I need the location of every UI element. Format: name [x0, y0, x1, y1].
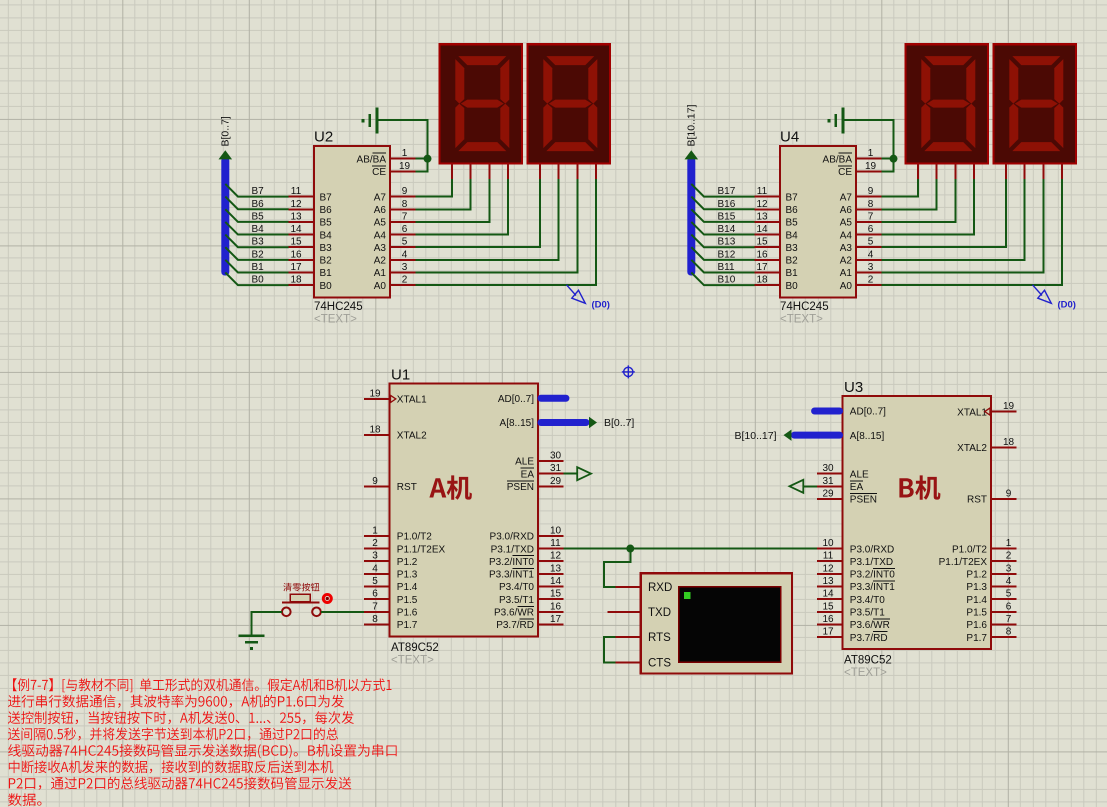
terminal pin RTS: [616, 632, 672, 644]
wire U4 A0 to display pin: [881, 179, 1062, 285]
pin 8 P1.7 of U1: [364, 614, 418, 631]
svg-text:14: 14: [290, 224, 302, 235]
svg-text:7: 7: [868, 211, 874, 222]
wire U2 A6 to display pin: [415, 179, 470, 209]
svg-text:6: 6: [402, 224, 408, 235]
svg-text:B15: B15: [718, 211, 736, 222]
svg-text:B12: B12: [718, 249, 736, 260]
svg-text:4: 4: [868, 249, 874, 260]
pin 13 P3.3/INT1 of U3: [817, 576, 895, 593]
pin 16 P3.6/WR of U3: [817, 614, 890, 631]
wire bus tap B5: [225, 209, 288, 222]
svg-text:P1.1/T2EX: P1.1/T2EX: [397, 544, 446, 555]
svg-text:B[10..17]: B[10..17]: [734, 430, 776, 442]
svg-text:6: 6: [868, 224, 874, 235]
EA output arrow of U3: [804, 485, 818, 487]
svg-text:B3: B3: [252, 237, 265, 248]
pin 4 P1.3 of U3: [966, 576, 1016, 593]
svg-text:B0: B0: [320, 281, 333, 292]
svg-text:4: 4: [1006, 576, 1012, 587]
pin 14 P3.4/T0 of U3: [817, 589, 885, 606]
svg-text:P1.5: P1.5: [966, 608, 987, 619]
wire junction to pin 1 of U2: [415, 158, 427, 160]
svg-text:A5: A5: [374, 218, 387, 229]
MCU label A机: [429, 475, 472, 499]
pin 9 A7 of U2: [374, 186, 416, 203]
svg-text:19: 19: [369, 388, 381, 399]
svg-text:19: 19: [865, 161, 877, 172]
wire U1 TXD to U3 RXD: [563, 548, 817, 550]
terminal pin TXD: [608, 607, 672, 619]
pin 13 B5 of U2: [289, 211, 332, 228]
svg-text:74HC245: 74HC245: [780, 301, 829, 313]
pin 5 P1.4 of U3: [966, 589, 1016, 606]
pin 18 B0 of U2: [289, 275, 332, 292]
pin 31 EA of U3: [817, 476, 863, 493]
pin 9 RST of U3: [967, 488, 1016, 505]
pin 17 P3.7/RD of U3: [817, 627, 887, 644]
svg-text:P3.1/TXD: P3.1/TXD: [850, 557, 893, 568]
svg-text:B2: B2: [786, 256, 799, 267]
svg-text:A0: A0: [840, 281, 853, 292]
wire button to ground: [252, 612, 282, 635]
svg-text:U3: U3: [844, 379, 863, 396]
wire button to P1.6 of U1: [321, 611, 364, 613]
pin 12 B6 of U2: [289, 199, 332, 216]
svg-text:P3.4/T0: P3.4/T0: [850, 595, 885, 606]
pin 7 P1.6 of U1: [364, 601, 418, 618]
MCU U3 AT89C52 body: [843, 396, 992, 649]
svg-text:<TEXT>: <TEXT>: [844, 667, 887, 679]
pin 19 CE of U2: [372, 161, 415, 178]
svg-text:EA: EA: [521, 469, 535, 480]
svg-text:P3.3/INT1: P3.3/INT1: [850, 582, 895, 593]
7-segment display left of U2 group: [440, 44, 523, 179]
pin 6 P1.5 of U1: [364, 589, 418, 606]
svg-text:XTAL2: XTAL2: [397, 431, 427, 442]
wire U2 A3 to display pin: [415, 179, 540, 247]
svg-text:P1.2: P1.2: [397, 557, 418, 568]
svg-text:A1: A1: [840, 268, 853, 279]
pin 3 P1.2 of U3: [966, 563, 1016, 580]
wire ground to U4 pin1/19: [844, 120, 894, 171]
svg-text:ALE: ALE: [515, 457, 534, 468]
virtual terminal body: [641, 573, 792, 673]
svg-text:16: 16: [756, 249, 768, 260]
pin 7 A5 of U2: [374, 211, 416, 228]
ground symbol near U4: [829, 108, 843, 134]
MCU U1 AT89C52 body: [390, 384, 539, 637]
svg-text:P1.4: P1.4: [966, 595, 987, 606]
svg-text:A[8..15]: A[8..15]: [850, 431, 885, 442]
svg-text:CE: CE: [838, 167, 852, 178]
description text paragraph (red): [8, 678, 397, 806]
svg-text:4: 4: [402, 249, 408, 260]
terminal pin CTS: [616, 657, 672, 669]
svg-text:17: 17: [822, 627, 834, 638]
svg-text:A2: A2: [374, 256, 387, 267]
svg-text:<TEXT>: <TEXT>: [391, 654, 434, 666]
svg-text:P3.2/INT0: P3.2/INT0: [850, 570, 895, 581]
pin 1 AB/BA of U2: [357, 148, 416, 165]
svg-text:A6: A6: [840, 205, 853, 216]
svg-text:B3: B3: [786, 243, 799, 254]
svg-text:CE: CE: [372, 167, 386, 178]
svg-text:15: 15: [550, 589, 562, 600]
svg-text:14: 14: [822, 589, 834, 600]
wire junction to pin 1 of U4: [881, 158, 893, 160]
pin 8 A6 of U4: [840, 199, 882, 216]
pin 1 AB/BA of U4: [823, 148, 882, 165]
pin 15 B3 of U4: [755, 237, 798, 254]
svg-text:5: 5: [372, 576, 378, 587]
wire junction to terminal RXD: [604, 549, 631, 588]
svg-text:18: 18: [290, 275, 302, 286]
svg-text:11: 11: [757, 186, 768, 197]
pin 8 A6 of U2: [374, 199, 416, 216]
svg-text:P1.2: P1.2: [966, 570, 987, 581]
svg-text:PSEN: PSEN: [850, 495, 877, 506]
svg-text:13: 13: [822, 576, 834, 587]
svg-text:11: 11: [823, 551, 834, 562]
svg-text:A[8..15]: A[8..15]: [500, 418, 535, 429]
svg-text:29: 29: [822, 488, 834, 499]
svg-text:11: 11: [291, 186, 302, 197]
svg-text:B6: B6: [320, 205, 333, 216]
IC U2 74HC245 body: [314, 146, 390, 298]
svg-text:19: 19: [399, 161, 411, 172]
7-segment display left of U4 group: [906, 44, 989, 179]
7-segment display right of U4 group: [994, 44, 1077, 179]
pin 15 P3.5/T1 of U1: [499, 589, 563, 606]
wire U4 A3 to display pin: [881, 179, 1006, 247]
svg-text:5: 5: [1006, 589, 1012, 600]
svg-text:P1.3: P1.3: [966, 582, 987, 593]
svg-text:B2: B2: [320, 256, 333, 267]
svg-text:1: 1: [372, 525, 378, 536]
pin 5 A3 of U2: [374, 237, 416, 254]
pin 6 A4 of U4: [840, 224, 882, 241]
svg-text:31: 31: [550, 463, 562, 474]
svg-text:6: 6: [372, 589, 378, 600]
wire bus tap B10: [691, 273, 754, 286]
svg-text:7: 7: [1006, 614, 1012, 625]
svg-text:B7: B7: [252, 186, 265, 197]
pin 11 B7 of U4: [755, 186, 798, 203]
pin 12 B6 of U4: [755, 199, 798, 216]
svg-text:P1.4: P1.4: [397, 582, 418, 593]
pin 2 A0 of U4: [840, 275, 882, 292]
pin 8 P1.7 of U3: [966, 627, 1016, 644]
pin 18 XTAL2 of U1: [364, 424, 427, 441]
svg-text:P1.7: P1.7: [966, 633, 987, 644]
pin 4 P1.3 of U1: [364, 563, 418, 580]
svg-text:P3.0/RXD: P3.0/RXD: [850, 544, 894, 555]
svg-text:15: 15: [290, 237, 302, 248]
svg-text:<TEXT>: <TEXT>: [314, 314, 357, 326]
svg-text:AD[0..7]: AD[0..7]: [850, 407, 886, 418]
svg-text:13: 13: [550, 563, 562, 574]
IC U4 74HC245 body: [780, 146, 856, 298]
svg-text:CTS: CTS: [648, 657, 671, 669]
origin marker crosshair: [622, 365, 635, 378]
pin 11 B7 of U2: [289, 186, 332, 203]
svg-text:B1: B1: [252, 262, 265, 273]
svg-text:10: 10: [822, 538, 834, 549]
svg-text:A4: A4: [374, 230, 387, 241]
svg-text:B6: B6: [252, 199, 265, 210]
svg-text:1: 1: [868, 148, 874, 159]
svg-text:16: 16: [550, 601, 562, 612]
svg-text:13: 13: [756, 211, 768, 222]
svg-text:A3: A3: [840, 243, 853, 254]
pin 17 P3.7/RD of U1: [496, 614, 563, 631]
wire bus tap B6: [225, 197, 288, 210]
pin 14 P3.4/T0 of U1: [499, 576, 563, 593]
wire U2 A5 to display pin: [415, 179, 489, 222]
svg-text:2: 2: [868, 275, 874, 286]
wire U2 A4 to display pin: [415, 179, 508, 234]
pin 29 PSEN of U1: [507, 476, 564, 493]
svg-text:P1.3: P1.3: [397, 570, 418, 581]
wire bus tap B15: [691, 209, 754, 222]
svg-text:5: 5: [402, 237, 408, 248]
terminal pin RXD: [616, 582, 673, 594]
svg-text:B5: B5: [252, 211, 265, 222]
svg-text:B5: B5: [320, 218, 333, 229]
pin 6 A4 of U2: [374, 224, 416, 241]
pin 12 P3.2/INT0 of U1: [489, 551, 563, 568]
svg-text:13: 13: [290, 211, 302, 222]
svg-text:P3.2/INT0: P3.2/INT0: [489, 557, 534, 568]
wire U4 A5 to display pin: [881, 179, 955, 222]
svg-text:9: 9: [868, 186, 874, 197]
svg-text:P3.6/WR: P3.6/WR: [494, 608, 534, 619]
svg-text:RXD: RXD: [648, 582, 672, 594]
pin 15 B3 of U2: [289, 237, 332, 254]
svg-text:P3.0/RXD: P3.0/RXD: [490, 532, 534, 543]
svg-text:A6: A6: [374, 205, 387, 216]
pin 29 PSEN of U3: [817, 488, 877, 505]
svg-text:AT89C52: AT89C52: [844, 654, 892, 666]
pin 18 B0 of U4: [755, 275, 798, 292]
svg-text:B4: B4: [252, 224, 265, 235]
pin 5 A3 of U4: [840, 237, 882, 254]
cursor arrow (D0): [567, 285, 586, 304]
pin 5 P1.4 of U1: [364, 576, 418, 593]
svg-text:TXD: TXD: [648, 607, 671, 619]
svg-text:B6: B6: [786, 205, 799, 216]
svg-text:B0: B0: [786, 281, 799, 292]
wire U4 A2 to display pin: [881, 179, 1024, 260]
wire bus tap B7: [225, 184, 288, 197]
svg-text:AT89C52: AT89C52: [391, 642, 439, 654]
svg-text:B11: B11: [718, 262, 735, 273]
svg-text:12: 12: [822, 563, 834, 574]
svg-text:3: 3: [868, 262, 874, 273]
pin 2 A0 of U2: [374, 275, 416, 292]
svg-text:RTS: RTS: [648, 632, 671, 644]
pin 16 B2 of U2: [289, 249, 332, 266]
svg-text:XTAL2: XTAL2: [957, 443, 987, 454]
wire bus tap B3: [225, 235, 288, 248]
svg-text:12: 12: [550, 551, 562, 562]
svg-text:6: 6: [1006, 601, 1012, 612]
svg-text:9: 9: [372, 476, 378, 487]
push button body: [282, 594, 321, 616]
pin 17 B1 of U2: [289, 262, 332, 279]
svg-text:P1.6: P1.6: [966, 620, 987, 631]
wire bus tap B4: [225, 222, 288, 235]
svg-text:30: 30: [550, 451, 562, 462]
wire U2 A2 to display pin: [415, 179, 558, 260]
bus stub AD[0..7] of U1: [538, 395, 570, 402]
pin 10 P3.0/RXD of U1: [490, 525, 564, 542]
wire bus tap B0: [225, 273, 288, 286]
svg-text:30: 30: [822, 463, 834, 474]
svg-text:A7: A7: [840, 192, 853, 203]
pin 16 P3.6/WR of U1: [494, 601, 563, 618]
svg-text:1: 1: [1006, 538, 1012, 549]
EA output arrow of U1: [563, 473, 577, 475]
svg-text:P1.6: P1.6: [397, 608, 418, 619]
svg-text:14: 14: [756, 224, 768, 235]
svg-text:8: 8: [1006, 627, 1012, 638]
wire bus tap B17: [691, 184, 754, 197]
svg-text:U4: U4: [780, 129, 799, 146]
bus B[0..7] vertical: [221, 157, 229, 276]
svg-text:3: 3: [372, 551, 378, 562]
pin 3 A1 of U2: [374, 262, 416, 279]
svg-text:8: 8: [402, 199, 408, 210]
svg-text:AD[0..7]: AD[0..7]: [498, 394, 534, 405]
svg-text:17: 17: [756, 262, 768, 273]
svg-text:B13: B13: [718, 237, 736, 248]
svg-text:B16: B16: [718, 199, 736, 210]
wire U2 A0 to display pin: [415, 179, 596, 285]
svg-text:B7: B7: [320, 192, 333, 203]
svg-text:18: 18: [756, 275, 768, 286]
svg-text:3: 3: [402, 262, 408, 273]
wire U2 A1 to display pin: [415, 179, 577, 272]
svg-text:B0: B0: [252, 275, 265, 286]
wire bus tap B2: [225, 247, 288, 260]
svg-text:P3.6/WR: P3.6/WR: [850, 620, 890, 631]
wire bus tap B14: [691, 222, 754, 235]
svg-text:P1.5: P1.5: [397, 595, 418, 606]
svg-text:P3.1/TXD: P3.1/TXD: [491, 544, 534, 555]
svg-text:A2: A2: [840, 256, 853, 267]
pin 31 EA of U1: [521, 463, 564, 480]
svg-text:<TEXT>: <TEXT>: [780, 314, 823, 326]
pin 11 P3.1/TXD of U1: [491, 538, 564, 555]
svg-text:16: 16: [290, 249, 302, 260]
pin 10 P3.0/RXD of U3: [817, 538, 894, 555]
svg-text:B2: B2: [252, 249, 265, 260]
pin 9 RST of U1: [364, 476, 417, 493]
svg-text:10: 10: [550, 525, 562, 536]
svg-text:B14: B14: [718, 224, 736, 235]
svg-text:B10: B10: [718, 275, 736, 286]
svg-text:1: 1: [402, 148, 408, 159]
svg-text:PSEN: PSEN: [507, 482, 534, 493]
pin 30 ALE of U3: [817, 463, 869, 480]
svg-text:8: 8: [868, 199, 874, 210]
pin 4 A2 of U4: [840, 249, 882, 266]
svg-text:RST: RST: [967, 495, 987, 506]
svg-text:B7: B7: [786, 192, 799, 203]
svg-text:A1: A1: [374, 268, 387, 279]
svg-text:(D0): (D0): [592, 300, 610, 311]
svg-text:B1: B1: [320, 268, 333, 279]
svg-text:29: 29: [550, 476, 562, 487]
svg-text:3: 3: [1006, 563, 1012, 574]
svg-text:U1: U1: [391, 367, 410, 384]
svg-text:P1.0/T2: P1.0/T2: [952, 544, 987, 555]
7-segment display right of U2 group: [528, 44, 611, 179]
pin 17 B1 of U4: [755, 262, 798, 279]
pin 30 ALE of U1: [515, 451, 563, 468]
wire U2 A7 to display pin: [415, 179, 452, 196]
pin 7 P1.6 of U3: [966, 614, 1016, 631]
push button actuator icon: [323, 595, 331, 603]
svg-text:2: 2: [372, 538, 378, 549]
svg-text:9: 9: [402, 186, 408, 197]
svg-text:9: 9: [1006, 488, 1012, 499]
svg-text:P3.7/RD: P3.7/RD: [496, 620, 534, 631]
svg-text:U2: U2: [314, 129, 333, 146]
wire bus tap B16: [691, 197, 754, 210]
junction dot at U2 pin1: [424, 155, 432, 163]
svg-text:P1.7: P1.7: [397, 620, 418, 631]
pin 19 CE of U4: [838, 161, 881, 178]
ground symbol near U2: [363, 108, 377, 134]
pin 1 P1.0/T2 of U1: [364, 525, 432, 542]
pin 14 B4 of U2: [289, 224, 332, 241]
pin 7 A5 of U4: [840, 211, 882, 228]
svg-text:18: 18: [369, 424, 381, 435]
pin 14 B4 of U4: [755, 224, 798, 241]
svg-text:P1.0/T2: P1.0/T2: [397, 532, 432, 543]
bus B[10..17] vertical: [687, 157, 695, 276]
svg-text:P3.7/RD: P3.7/RD: [850, 633, 888, 644]
wire U4 A1 to display pin: [881, 179, 1043, 272]
svg-text:RST: RST: [397, 482, 417, 493]
svg-text:2: 2: [1006, 551, 1012, 562]
pin 6 P1.5 of U3: [966, 601, 1016, 618]
pin 13 B5 of U4: [755, 211, 798, 228]
svg-text:B[10..17]: B[10..17]: [686, 104, 698, 146]
cursor arrow (D0): [1033, 285, 1052, 304]
wire bus tap B12: [691, 247, 754, 260]
svg-text:B4: B4: [320, 230, 333, 241]
pin 3 P1.2 of U1: [364, 551, 418, 568]
svg-text:A3: A3: [374, 243, 387, 254]
pin 1 P1.0/T2 of U3: [952, 538, 1016, 555]
wire U4 A6 to display pin: [881, 179, 936, 209]
svg-text:P3.5/T1: P3.5/T1: [850, 608, 885, 619]
pin 18 XTAL2 of U3: [957, 437, 1016, 454]
pin 11 P3.1/TXD of U3: [817, 551, 893, 568]
svg-text:B[0..7]: B[0..7]: [604, 417, 634, 429]
wire bus tap B11: [691, 260, 754, 273]
svg-text:ALE: ALE: [850, 469, 869, 480]
svg-text:7: 7: [402, 211, 408, 222]
svg-text:11: 11: [550, 538, 561, 549]
pin 16 B2 of U4: [755, 249, 798, 266]
wire bus tap B13: [691, 235, 754, 248]
svg-text:15: 15: [756, 237, 768, 248]
